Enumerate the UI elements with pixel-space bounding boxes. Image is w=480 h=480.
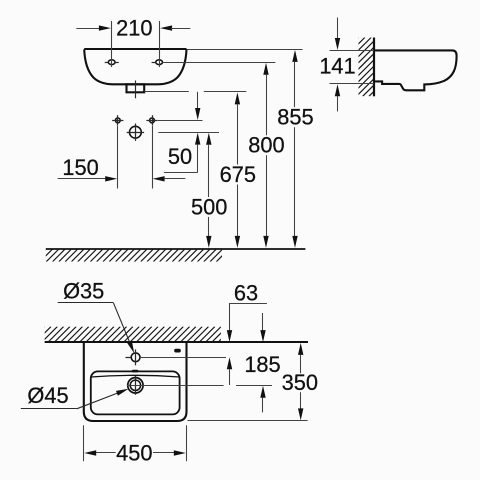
svg-text:185: 185 bbox=[244, 352, 280, 377]
svg-text:63: 63 bbox=[234, 281, 258, 306]
svg-text:675: 675 bbox=[220, 162, 256, 187]
svg-text:450: 450 bbox=[116, 441, 152, 466]
svg-text:855: 855 bbox=[277, 105, 313, 130]
svg-text:500: 500 bbox=[191, 195, 227, 220]
svg-text:350: 350 bbox=[282, 370, 318, 395]
svg-text:141: 141 bbox=[319, 53, 355, 78]
svg-text:Ø35: Ø35 bbox=[63, 279, 104, 304]
svg-text:Ø45: Ø45 bbox=[27, 383, 68, 408]
svg-text:210: 210 bbox=[116, 16, 152, 41]
svg-text:150: 150 bbox=[62, 155, 98, 180]
svg-text:50: 50 bbox=[168, 144, 192, 169]
svg-text:800: 800 bbox=[248, 133, 284, 158]
